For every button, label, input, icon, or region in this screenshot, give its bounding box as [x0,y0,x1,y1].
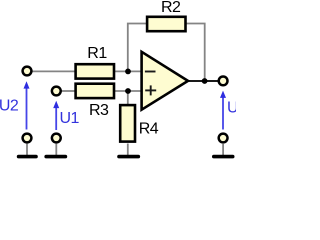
svg-text:U: U [227,100,236,117]
ground R4 [119,155,138,159]
wire node B down to R4 [127,91,129,105]
svg-text:R1: R1 [87,45,107,62]
wire feedback left: node A up and over to R2 [128,24,148,72]
arrow U1 [55,108,57,131]
wire U2 terminal to R1 [30,70,76,72]
wire stem to ground 2 [55,144,57,156]
resistor R4 [120,105,135,142]
terminal U return [219,134,228,143]
terminal U1 input [52,87,61,96]
op-amp U1 [142,52,188,110]
wire feedback right: R2 to output node [185,24,205,82]
node output junction [202,78,208,84]
svg-text:R4: R4 [139,120,159,137]
node A inverting input junction [125,69,131,75]
wire R4 to ground [127,144,129,156]
resistor R2 [147,17,185,31]
arrow U [222,97,224,129]
terminal U2 input [23,67,32,76]
terminal U1 return [52,134,61,143]
svg-text:R3: R3 [89,102,109,119]
wire stem to ground 4 [222,143,224,155]
ground 2 [46,155,65,159]
arrow U2 [26,88,28,130]
svg-text:R2: R2 [161,0,181,16]
terminal U output [219,77,228,86]
resistor R3 [76,84,114,98]
wire R3 to op-amp non-inverting input [114,90,142,92]
op-amp non-inverting pin plus sign [145,89,156,91]
ground 1 [19,155,36,159]
ground output [214,155,233,159]
svg-text:U2: U2 [0,98,19,115]
wire R1 to op-amp inverting input [114,70,142,72]
wire op-amp output to U terminal [188,80,218,82]
terminal U2 return [23,134,32,143]
op-amp inverting pin minus sign [145,71,156,73]
resistor R1 [76,64,114,78]
svg-text:U1: U1 [60,110,80,127]
wire stem to ground 1 [26,144,28,156]
wire U1 terminal to R3 [60,90,76,92]
node B non-inverting input junction [125,88,131,94]
